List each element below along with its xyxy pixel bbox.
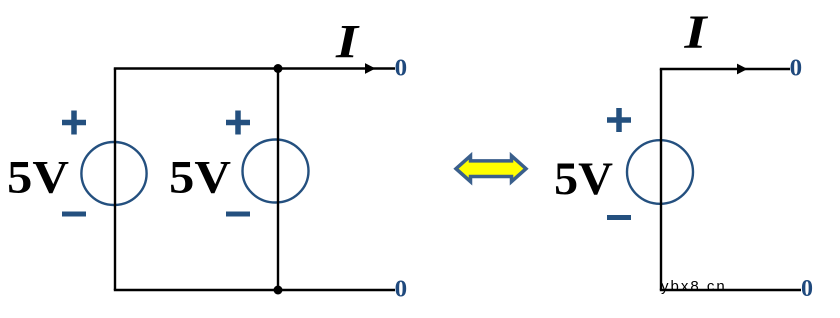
current arrowhead on right-circuit top wire bbox=[737, 64, 748, 75]
voltage source V3 (5V) circle bbox=[627, 140, 693, 204]
svg-text:0: 0 bbox=[395, 277, 408, 303]
current arrowhead on left-circuit top wire bbox=[365, 63, 376, 74]
svg-text:5V: 5V bbox=[169, 151, 231, 203]
wire: left-circuit left vertical branch bbox=[114, 69, 116, 291]
wire: right-circuit vertical branch through V3 bbox=[660, 69, 662, 290]
junction node dot (top) bbox=[274, 64, 283, 73]
wire: right-circuit bottom horizontal (to terminal 0) bbox=[660, 289, 801, 291]
junction node dot (bottom) bbox=[274, 286, 283, 295]
svg-text:5V: 5V bbox=[554, 153, 613, 205]
wire: right-circuit top horizontal (to terminal 0) bbox=[660, 68, 790, 70]
plus sign of V2 bbox=[226, 111, 250, 135]
minus sign of V3 bbox=[607, 215, 631, 220]
wire: left-circuit middle vertical branch through V2 bbox=[277, 69, 279, 291]
wire: left-circuit top horizontal (node to terminal 0) bbox=[114, 67, 395, 69]
voltage source V1 (5V) circle bbox=[81, 142, 146, 205]
svg-text:I: I bbox=[683, 6, 709, 59]
equivalence double-headed arrow bbox=[456, 156, 526, 182]
svg-text:0: 0 bbox=[790, 56, 803, 82]
wire: left-circuit bottom horizontal (node to terminal 0) bbox=[114, 289, 395, 291]
svg-text:I: I bbox=[335, 15, 361, 68]
plus sign of V3 bbox=[607, 108, 631, 132]
svg-text:ybx8.cn: ybx8.cn bbox=[661, 278, 727, 295]
minus sign of V1 bbox=[62, 212, 86, 217]
voltage source V2 (5V) circle bbox=[243, 140, 309, 203]
plus sign of V1 bbox=[62, 111, 86, 135]
svg-text:0: 0 bbox=[395, 56, 408, 82]
svg-text:5V: 5V bbox=[7, 151, 69, 203]
svg-text:0: 0 bbox=[801, 276, 813, 302]
minus sign of V2 bbox=[226, 212, 250, 217]
